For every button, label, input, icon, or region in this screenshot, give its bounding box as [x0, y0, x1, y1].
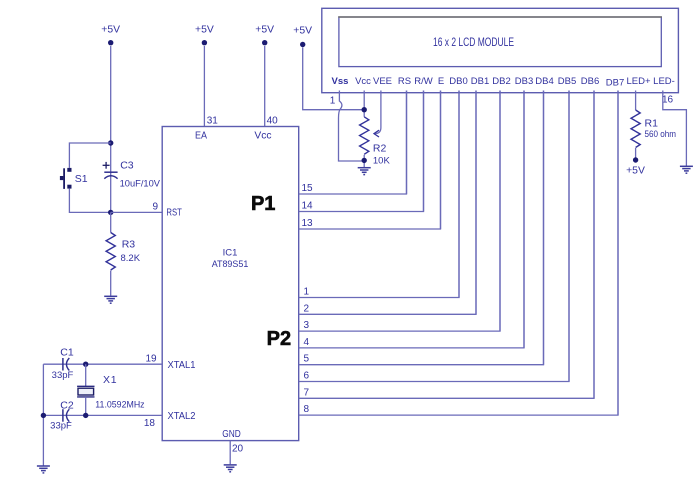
svg-text:40: 40 — [267, 116, 279, 127]
svg-text:E: E — [438, 76, 444, 87]
wire P2.6 pin 7 — [299, 91, 594, 399]
IC U1 AT89S51 body — [162, 127, 299, 441]
svg-text:Vcc: Vcc — [355, 76, 371, 87]
svg-text:DB6: DB6 — [581, 76, 599, 87]
svg-text:DB4: DB4 — [535, 76, 553, 87]
svg-text:8.2K: 8.2K — [121, 253, 141, 264]
wire DB7 pin — [617, 91, 619, 416]
svg-text:9: 9 — [153, 201, 159, 212]
svg-text:16 x 2 LCD MODULE: 16 x 2 LCD MODULE — [433, 37, 514, 49]
ground (IC GND) — [224, 465, 237, 472]
svg-text:4: 4 — [304, 337, 310, 348]
svg-text:DB5: DB5 — [558, 76, 576, 87]
svg-text:560 ohm: 560 ohm — [645, 129, 677, 140]
crystal X1 — [77, 364, 145, 415]
svg-text:R/W: R/W — [414, 76, 433, 87]
svg-text:20: 20 — [232, 443, 244, 454]
wire DB1 pin — [475, 91, 477, 315]
svg-text:18: 18 — [144, 418, 156, 429]
ground (crystal caps) — [37, 466, 50, 473]
svg-text:14: 14 — [302, 201, 314, 212]
switch S1 — [60, 168, 88, 189]
svg-text:+5V: +5V — [293, 26, 312, 37]
svg-text:11.0592MHz: 11.0592MHz — [95, 399, 145, 410]
wire P2.0 pin 1 — [299, 91, 459, 298]
svg-text:+5V: +5V — [626, 166, 645, 177]
capacitor C1 — [52, 347, 74, 382]
ground (LED-) — [680, 166, 693, 173]
svg-text:13: 13 — [302, 218, 314, 229]
wire E pin — [440, 91, 442, 230]
wire P1.5 pin 15 — [299, 91, 407, 195]
svg-text:31: 31 — [207, 116, 219, 127]
wire DB4 pin — [543, 91, 545, 365]
wire S1 bottom branch — [69, 189, 110, 213]
svg-text:RS: RS — [398, 76, 411, 87]
svg-text:33pF: 33pF — [50, 420, 72, 431]
wire S1 top branch — [69, 143, 110, 168]
power +5V (LED backlight) — [633, 157, 638, 162]
wire RS pin — [406, 91, 408, 195]
svg-text:+5V: +5V — [195, 25, 214, 36]
svg-text:XTAL2: XTAL2 — [168, 411, 196, 422]
svg-text:+5V: +5V — [255, 25, 274, 36]
wire DB2 pin — [499, 91, 501, 332]
wire DB0 pin — [458, 91, 460, 298]
node RST junction — [108, 210, 113, 215]
svg-text:Vcc: Vcc — [254, 131, 271, 142]
svg-text:DB7: DB7 — [606, 78, 624, 89]
svg-text:RST: RST — [166, 207, 182, 218]
svg-text:C2: C2 — [60, 399, 74, 411]
wire P2.3 pin 4 — [299, 91, 524, 348]
svg-text:2: 2 — [304, 303, 310, 314]
node R2 top — [362, 107, 367, 112]
capacitor C3 — [103, 160, 161, 190]
resistor R1 — [631, 91, 676, 161]
svg-text:5: 5 — [304, 354, 310, 365]
wire DB6 pin — [593, 91, 595, 399]
node XTAL1/X1 junction — [83, 362, 88, 367]
wire Vss pin with hop — [338, 91, 364, 162]
svg-text:+5V: +5V — [101, 25, 120, 36]
wire R/W pin — [423, 91, 425, 212]
ground (R2/Vss) — [358, 168, 371, 175]
wire +5V to LCD Vcc pin — [303, 48, 365, 110]
wire P2.5 pin 6 — [299, 91, 569, 382]
svg-text:IC1: IC1 — [223, 248, 238, 259]
svg-text:33pF: 33pF — [52, 370, 74, 381]
svg-text:DB2: DB2 — [492, 76, 510, 87]
svg-text:1: 1 — [330, 96, 336, 107]
LCD module outer box — [322, 8, 679, 92]
wire RST to IC — [111, 211, 163, 213]
node T-junction switch branch — [108, 140, 113, 145]
svg-text:XTAL1: XTAL1 — [168, 360, 196, 371]
wire P2.1 pin 2 — [299, 91, 476, 315]
svg-text:10uF/10V: 10uF/10V — [120, 179, 161, 190]
wire P2.7 pin 8 — [299, 91, 618, 416]
wire P2.2 pin 3 — [299, 91, 500, 332]
svg-text:EA: EA — [195, 131, 207, 142]
svg-text:DB3: DB3 — [515, 76, 533, 87]
svg-text:S1: S1 — [75, 173, 88, 185]
svg-text:10K: 10K — [373, 156, 391, 167]
svg-text:1: 1 — [304, 287, 310, 298]
svg-text:3: 3 — [304, 320, 310, 331]
resistor R3 — [106, 212, 141, 295]
capacitor C2 — [50, 399, 74, 431]
node R2 bottom — [362, 158, 367, 163]
svg-text:Vss: Vss — [332, 76, 349, 87]
wire +5V to Vcc — [264, 46, 266, 127]
svg-text:19: 19 — [145, 354, 157, 365]
wire XTAL1 — [43, 363, 162, 365]
svg-text:P1: P1 — [251, 193, 275, 215]
LCD display inner box — [338, 17, 662, 67]
svg-text:LED-: LED- — [653, 76, 675, 87]
ground (R3) — [104, 296, 117, 303]
svg-text:15: 15 — [302, 183, 314, 194]
node C2 left junction — [41, 413, 46, 418]
potentiometer R2 — [360, 117, 391, 167]
wire +5V to EA — [203, 46, 205, 127]
svg-text:X1: X1 — [103, 374, 117, 386]
node XTAL2/X1 junction — [83, 413, 88, 418]
svg-text:R2: R2 — [373, 143, 387, 155]
wire +5V to RST node vertical — [110, 46, 112, 212]
svg-text:AT89S51: AT89S51 — [212, 259, 249, 270]
wire DB3 pin — [523, 91, 525, 348]
svg-text:R3: R3 — [122, 239, 136, 251]
svg-text:16: 16 — [662, 95, 674, 106]
svg-text:P2: P2 — [267, 328, 291, 350]
wire GND pin 20 — [229, 441, 231, 465]
wire P1.7 pin 13 — [299, 91, 441, 230]
wire P2.4 pin 5 — [299, 91, 544, 365]
svg-text:6: 6 — [304, 371, 310, 382]
svg-text:LED+: LED+ — [626, 76, 650, 87]
wire LED- to ground — [663, 91, 687, 167]
wire DB5 pin — [568, 91, 570, 382]
svg-text:7: 7 — [304, 387, 310, 398]
svg-text:C1: C1 — [60, 347, 74, 359]
wire Vcc pin stub — [363, 91, 365, 117]
svg-text:C3: C3 — [120, 160, 134, 172]
wire XTAL2 — [43, 414, 162, 416]
svg-text:DB0: DB0 — [449, 76, 467, 87]
svg-text:GND: GND — [222, 429, 241, 440]
wire VEE wiper arrow — [374, 91, 381, 138]
svg-text:8: 8 — [304, 404, 310, 415]
svg-text:DB1: DB1 — [471, 76, 489, 87]
wire P1.6 pin 14 — [299, 91, 424, 212]
svg-text:VEE: VEE — [373, 76, 392, 87]
svg-text:R1: R1 — [645, 118, 659, 130]
wire left cap drop to ground — [42, 364, 44, 466]
